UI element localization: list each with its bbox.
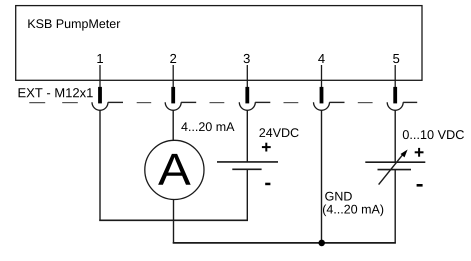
- wire: ammeter to GND bus: [173, 199, 175, 243]
- pin 3 lead: [246, 65, 248, 88]
- pin 3 contact bar: [245, 87, 249, 104]
- pin 5 contact bar: [393, 87, 397, 104]
- connector socket arc pin 4: [314, 102, 330, 110]
- connector socket arc pin 5: [387, 102, 403, 110]
- minus sign V1: [265, 183, 270, 186]
- dashed connector boundary line (M12 interface): [29, 102, 372, 104]
- label: 4...20 mA: [181, 122, 234, 131]
- wire: pin 3 to battery plus: [246, 110, 248, 162]
- pin 2 contact bar: [171, 87, 175, 104]
- pin 4 contact bar: [320, 87, 324, 104]
- battery V1 24VDC: [217, 162, 278, 169]
- label: EXT - M12x1: [19, 88, 93, 97]
- pin 3 number: [244, 54, 250, 63]
- wire: negative rail pin1 to battery minus: [99, 219, 248, 221]
- wire: pin 4 to GND junction: [321, 110, 323, 243]
- connector socket arc pin 2: [165, 102, 181, 110]
- label: 24VDC: [259, 128, 298, 137]
- pin 1 contact bar: [98, 87, 102, 104]
- GND bus wire: [173, 242, 396, 244]
- label: KSB PumpMeter: [28, 19, 120, 30]
- pin 1 lead: [99, 65, 101, 88]
- label: GND (4...20 mA): [325, 192, 352, 201]
- wire: pin 5 to source plus: [394, 110, 396, 162]
- minus sign G1: [417, 184, 423, 187]
- junction node GND: [318, 240, 325, 247]
- pin 2 number: [170, 54, 176, 63]
- plus sign V1: [262, 143, 271, 152]
- wire: source minus to GND bus: [394, 170, 396, 243]
- wire: pin 2 to ammeter: [172, 110, 174, 141]
- wire: battery V1 minus lead down: [246, 170, 248, 221]
- pin 5 number: [393, 54, 399, 63]
- label: 0...10 VDC: [403, 130, 464, 139]
- wire: pin 1 down to negative rail: [99, 110, 101, 220]
- IC box U1: KSB PumpMeter: [16, 6, 422, 81]
- pin 4 lead: [321, 65, 323, 88]
- pin 1 number: [97, 54, 103, 63]
- pin 2 lead: [172, 65, 174, 88]
- connector socket arc pin 1: [92, 102, 108, 110]
- plus sign G1: [415, 148, 424, 157]
- connector socket arc pin 3: [239, 102, 255, 110]
- variable source G1 0...10 VDC: [365, 150, 425, 185]
- ammeter P1: [145, 140, 204, 199]
- pin 5 lead: [394, 65, 396, 88]
- pin 4 number: [318, 54, 325, 63]
